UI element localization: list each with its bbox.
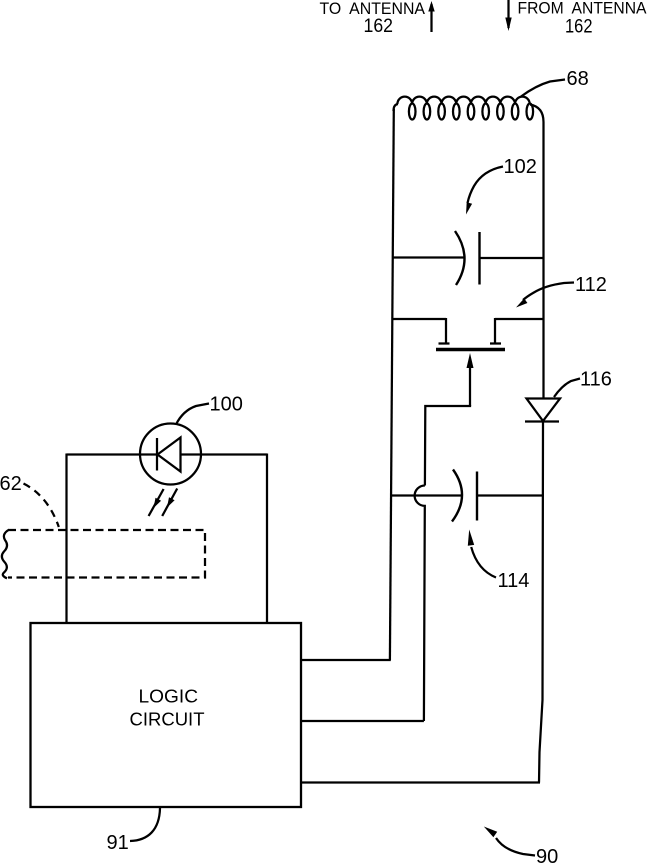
label TO ANTENNA: [320, 0, 426, 18]
label 68: [567, 68, 589, 90]
svg-text:68: 68: [567, 68, 589, 90]
svg-text:LOGIC: LOGIC: [139, 686, 199, 707]
leader arrow to 114: [468, 530, 496, 578]
label LOGIC CIRCUIT: [130, 686, 205, 730]
capacitor C102 left wire: [393, 256, 464, 258]
leader to 91: [130, 808, 160, 841]
svg-text:162: 162: [364, 16, 394, 37]
svg-text:100: 100: [210, 394, 243, 416]
label 112: [575, 274, 607, 296]
label FROM ANTENNA: [518, 0, 647, 18]
wire LED right vertical: [266, 454, 268, 624]
transistor Q112 gate bar: [436, 348, 505, 351]
wire left rail: [390, 109, 394, 660]
wire logic to middle rail: [301, 720, 424, 722]
logic circuit box 91: [31, 623, 302, 807]
capacitor C114 left wire: [391, 494, 463, 496]
label 114: [498, 570, 530, 592]
module 62 dashed box: [8, 530, 205, 578]
wire logic to right rail: [301, 781, 540, 783]
wire logic to left rail: [301, 659, 391, 661]
dashed leader to 62: [24, 484, 59, 528]
capacitor C114 right wire: [477, 494, 542, 496]
svg-text:62: 62: [0, 473, 22, 495]
label 62: [0, 473, 22, 495]
svg-text:116: 116: [580, 369, 612, 391]
label 91: [107, 832, 129, 854]
wire right rail upper: [530, 105, 544, 399]
transistor Q112 source leg: [490, 318, 501, 344]
leader arrow to 112: [516, 283, 574, 308]
transistor Q112 gate arrow: [467, 353, 474, 406]
label 102: [504, 156, 537, 178]
LED D100 diode symbol: [157, 438, 181, 472]
module 62 torn edge squiggle: [2, 530, 9, 579]
capacitor C102 straight plate: [478, 232, 480, 285]
arrow up (to antenna): [428, 1, 434, 32]
wire right rail lower: [539, 422, 543, 783]
svg-text:91: 91: [107, 832, 129, 854]
transistor Q112 drain leg: [439, 318, 450, 344]
node 162 (to antenna): [364, 16, 394, 37]
LED emission arrow right: [162, 489, 177, 517]
leader arrow to 90: [484, 827, 535, 856]
svg-text:162: 162: [565, 17, 593, 38]
wire LED left vertical: [65, 454, 67, 624]
capacitor C102 right wire: [480, 257, 544, 259]
LED D100 left wire: [67, 453, 158, 455]
wire gate step: [425, 405, 470, 486]
capacitor C102 curved plate: [455, 231, 465, 285]
LED D100 right wire: [181, 453, 268, 455]
svg-text:114: 114: [498, 570, 530, 592]
wire crossover hop: [415, 485, 425, 721]
capacitor C114 straight plate: [476, 472, 478, 521]
svg-text:102: 102: [504, 156, 537, 178]
transistor Q112 drain wire: [392, 318, 446, 320]
svg-text:FROM ANTENNA: FROM ANTENNA: [518, 0, 647, 18]
capacitor C114 curved plate: [452, 470, 462, 522]
leader arrow to 102: [466, 167, 503, 215]
leader to 100: [176, 404, 209, 425]
arrow down (from antenna): [505, 0, 511, 31]
label 90: [536, 846, 558, 863]
node 162 (from antenna): [565, 17, 593, 38]
label 116: [580, 369, 612, 391]
label 100: [210, 394, 243, 416]
diode D116: [525, 399, 560, 422]
transistor Q112 source wire: [495, 318, 544, 320]
leader to 116: [554, 379, 580, 398]
LED emission arrow left: [149, 489, 164, 516]
leader to 68: [521, 80, 565, 97]
LED D100 circle: [140, 424, 201, 485]
svg-text:CIRCUIT: CIRCUIT: [130, 709, 205, 730]
svg-text:90: 90: [536, 846, 558, 863]
svg-text:112: 112: [575, 274, 607, 296]
inductor L68 coil: [394, 97, 534, 120]
